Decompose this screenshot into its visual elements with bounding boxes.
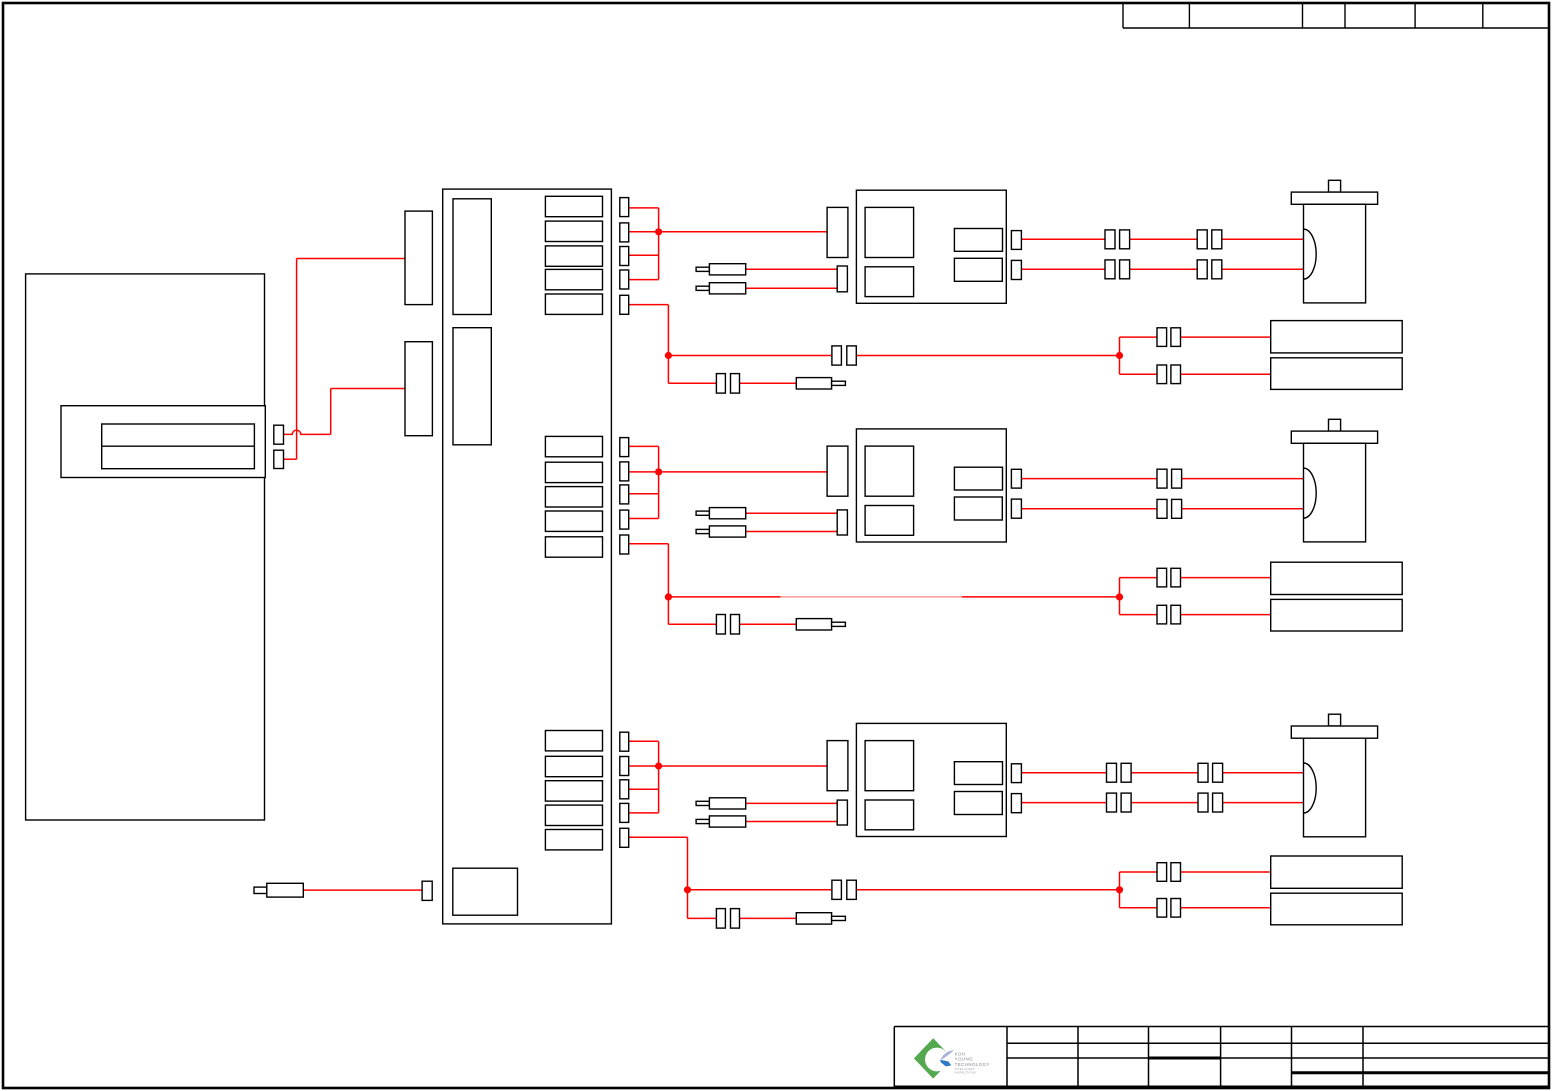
svg-text:TECHNOLOGY: TECHNOLOGY: [955, 1062, 990, 1067]
svg-text:INSPECTIONS: INSPECTIONS: [955, 1071, 977, 1075]
svg-text:INTELLIGENT: INTELLIGENT: [955, 1067, 976, 1071]
